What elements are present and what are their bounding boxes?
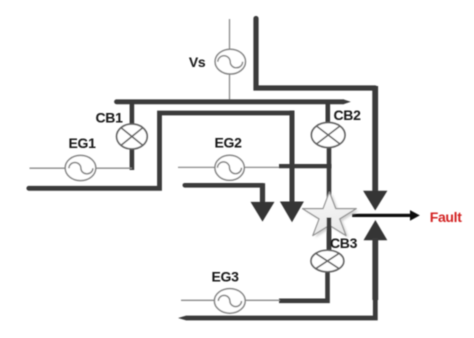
svg-text:CB2: CB2 bbox=[334, 107, 362, 123]
wire EG1 feeder thin bbox=[30, 167, 133, 169]
svg-text:CB3: CB3 bbox=[330, 235, 358, 251]
generator EG1 circle bbox=[65, 155, 96, 180]
generator EG2 circle bbox=[215, 155, 244, 180]
wire EG2 thick segment to CB2 line bbox=[279, 164, 332, 168]
svg-text:CB1: CB1 bbox=[96, 110, 124, 126]
wire bottom bus left taper tip bbox=[178, 316, 187, 321]
wire right vertical to bottom bus bbox=[187, 238, 376, 318]
wire path C with down arrow bbox=[185, 183, 263, 188]
breaker CB1 circle bbox=[117, 124, 148, 149]
wire path B with down arrow bbox=[29, 113, 292, 188]
star fault symbol bbox=[303, 192, 357, 236]
fault arrow horizontal bbox=[352, 214, 411, 217]
wire up arrow tail right bbox=[372, 238, 378, 300]
star shadow bbox=[305, 194, 359, 238]
wire path A top right with down arrow bbox=[256, 19, 375, 89]
svg-text:EG2: EG2 bbox=[215, 135, 243, 151]
wire up arrow right bbox=[364, 220, 388, 240]
wire down arrow tail right bbox=[372, 86, 378, 192]
wire EG3 feeder thin bbox=[181, 299, 280, 301]
source Vs circle bbox=[215, 49, 245, 74]
wire down arrowhead left-1 bbox=[251, 202, 275, 222]
wire down arrow tail x292 bbox=[290, 111, 295, 204]
breaker CB3 circle bbox=[311, 250, 344, 272]
svg-text:Vs: Vs bbox=[189, 54, 206, 70]
wire CB2 stub bbox=[325, 102, 330, 124]
generator EG3 circle bbox=[214, 289, 245, 314]
wire EG2 feeder thin bbox=[178, 166, 280, 168]
wire down arrow tail x262 bbox=[260, 183, 265, 203]
svg-text:EG1: EG1 bbox=[69, 135, 97, 151]
svg-text:EG3: EG3 bbox=[212, 269, 240, 285]
wire CB3 to EG3 stub bbox=[279, 272, 328, 301]
fault arrowhead bbox=[410, 210, 420, 221]
wire CB2 to CB3 vertical bbox=[327, 147, 332, 251]
breaker CB2 circle bbox=[311, 123, 345, 148]
wire down arrowhead left-2 bbox=[280, 202, 304, 223]
wire Vs vertical thin bbox=[229, 19, 231, 102]
svg-text:Fault: Fault bbox=[430, 209, 463, 225]
wire star center to CB3 overlay bbox=[327, 218, 332, 252]
wire CB1 stub bbox=[130, 102, 135, 171]
wire top bus bbox=[117, 99, 344, 104]
wire top bus right taper tip bbox=[343, 99, 351, 104]
wire down arrowhead right bbox=[363, 191, 387, 211]
